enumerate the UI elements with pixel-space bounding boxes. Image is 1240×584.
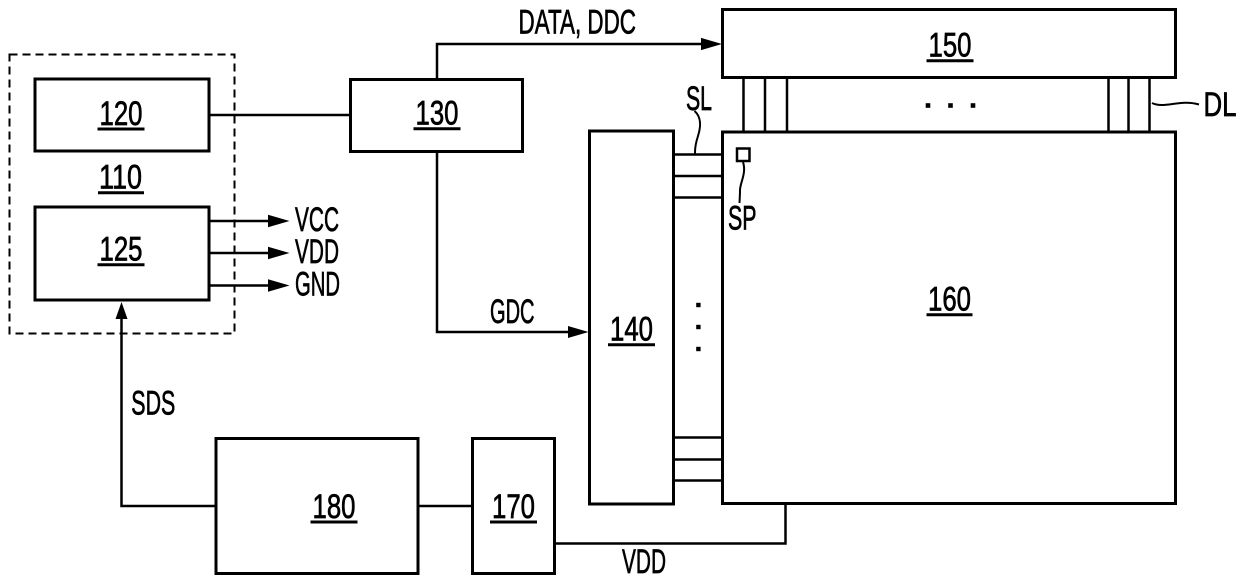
- dashed group box 110: [10, 55, 235, 334]
- svg-text:150: 150: [929, 27, 972, 65]
- label 180: [311, 488, 358, 526]
- label 125: [98, 231, 145, 269]
- block 130: [351, 80, 523, 152]
- label SP with leader: [728, 162, 757, 238]
- data line DL 2: [764, 78, 767, 132]
- data line DL 3: [786, 78, 789, 132]
- block 140: [590, 131, 674, 504]
- svg-text:170: 170: [492, 488, 535, 526]
- wire VDD from 170 to 160: [555, 504, 786, 544]
- wire 180 to 170: [418, 505, 474, 508]
- block 180: [216, 439, 418, 574]
- scan line SL 1: [674, 153, 722, 156]
- block 170: [473, 439, 555, 574]
- svg-text:DL: DL: [1204, 86, 1237, 124]
- svg-text:110: 110: [99, 159, 142, 197]
- scan line SL 3: [674, 196, 722, 199]
- svg-text:SL: SL: [686, 80, 712, 118]
- svg-text:120: 120: [100, 95, 143, 133]
- label 150: [927, 27, 974, 65]
- label VDD bottom: [622, 543, 666, 581]
- label 130: [414, 95, 461, 133]
- block 125: [35, 207, 209, 300]
- label 110: [98, 159, 144, 197]
- data line DL 1: [742, 78, 745, 132]
- block 160: [723, 132, 1176, 504]
- svg-text:SP: SP: [728, 200, 757, 238]
- data line DL 5: [1127, 78, 1130, 132]
- svg-text:130: 130: [416, 95, 459, 133]
- label 140: [608, 311, 655, 349]
- label SDS: [131, 384, 175, 422]
- scan line SL 5: [674, 458, 722, 461]
- arrow VCC: [209, 215, 290, 227]
- label SL with leader: [686, 80, 712, 154]
- label VCC: [295, 201, 339, 239]
- label 170: [490, 488, 537, 526]
- svg-text:DATA, DDC: DATA, DDC: [519, 3, 637, 41]
- wire DATA, DDC from 130 to 150: [437, 38, 722, 79]
- svg-text:SDS: SDS: [131, 384, 175, 422]
- svg-text:140: 140: [610, 311, 653, 349]
- block 120: [35, 79, 209, 151]
- scan line SL 4: [674, 436, 722, 439]
- ellipsis dots between data lines: [926, 103, 976, 108]
- arrow VDD: [209, 247, 290, 259]
- block 150: [723, 10, 1176, 78]
- svg-text:180: 180: [313, 488, 356, 526]
- scan line SL 2: [674, 175, 722, 178]
- label 160: [927, 281, 973, 319]
- arrow GND: [209, 279, 290, 291]
- pixel SP square: [737, 149, 750, 162]
- label 120: [98, 95, 145, 133]
- svg-text:GND: GND: [295, 265, 340, 303]
- wire SDS from 180 to 125: [116, 302, 217, 506]
- svg-text:125: 125: [100, 231, 143, 269]
- svg-text:GDC: GDC: [490, 293, 535, 331]
- label DL with leader: [1152, 86, 1237, 124]
- wire GDC from 130 to 140: [437, 152, 589, 339]
- vertical dots between scan lines: [696, 303, 700, 351]
- svg-text:160: 160: [928, 281, 971, 319]
- label DATA, DDC: [519, 3, 637, 41]
- label GND: [295, 265, 340, 303]
- wire 120 to 130: [209, 114, 352, 117]
- scan line SL 6: [674, 479, 722, 482]
- label VDD: [295, 233, 339, 271]
- label GDC: [490, 293, 535, 331]
- data line DL 6: [1148, 78, 1151, 132]
- data line DL 4: [1107, 78, 1110, 132]
- svg-text:VDD: VDD: [622, 543, 666, 581]
